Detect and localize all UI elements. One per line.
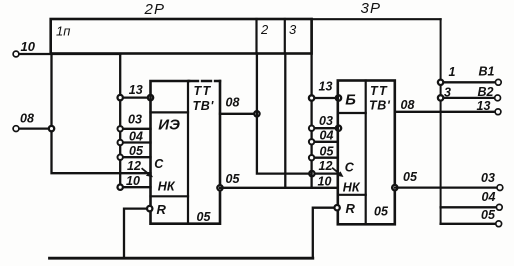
wire pin 05 of U2 xyxy=(312,157,338,159)
svg-text:08: 08 xyxy=(226,96,240,110)
svg-text:12: 12 xyxy=(319,159,333,173)
node pin 03 U2 box edge xyxy=(336,126,341,131)
svg-text:3: 3 xyxy=(289,22,297,37)
node pin 03 xyxy=(118,126,123,131)
wire right pin rail (box right edge extension) xyxy=(310,19,312,188)
terminal 05 xyxy=(496,221,502,227)
svg-text:03: 03 xyxy=(319,114,333,128)
wire pin 10 of U1 xyxy=(120,186,150,188)
svg-text:05: 05 xyxy=(197,210,212,224)
wire 08 output of U1 xyxy=(220,113,257,115)
node 05 output of U2 xyxy=(392,185,397,190)
svg-text:Б: Б xyxy=(345,92,356,109)
node pin 03 U2 rail xyxy=(309,126,314,131)
svg-text:04: 04 xyxy=(320,129,334,143)
terminal В1 xyxy=(495,79,501,85)
terminal 04 xyxy=(496,204,502,210)
svg-text:3Р: 3Р xyxy=(361,0,382,17)
node pin13 U2 box edge xyxy=(336,95,341,100)
wire 05 of U1 to pin 10 of U2 xyxy=(220,187,338,189)
svg-text:04: 04 xyxy=(129,129,143,143)
svg-text:13: 13 xyxy=(319,80,333,94)
wire left pin rail xyxy=(119,54,121,187)
node pin 04 U2 xyxy=(309,139,314,144)
wire R input of U1 xyxy=(124,209,150,259)
node R of U1 xyxy=(147,206,152,211)
node В2 junction xyxy=(438,95,443,100)
svg-text:2: 2 xyxy=(260,22,269,37)
node pin 04 xyxy=(118,140,123,145)
dynamic input arrow C of U2 xyxy=(333,168,340,174)
terminal 10 (input) xyxy=(13,51,19,57)
svg-text:03: 03 xyxy=(481,171,495,185)
counter U1 box outline xyxy=(151,81,221,224)
svg-text:ТВ': ТВ' xyxy=(193,99,215,113)
wire pin 04 of U2 xyxy=(312,141,338,143)
svg-text:НК: НК xyxy=(158,179,176,193)
svg-text:С: С xyxy=(345,160,355,174)
divider cell 3 xyxy=(284,19,286,54)
svg-text:12: 12 xyxy=(127,159,141,173)
counter U1 dashed top edge xyxy=(189,80,220,82)
U2 inner divider xyxy=(365,81,367,225)
svg-text:04: 04 xyxy=(482,190,496,204)
node pin 05 xyxy=(118,155,123,160)
svg-text:10: 10 xyxy=(21,39,36,54)
node pin 05 U2 xyxy=(309,155,314,160)
svg-text:10: 10 xyxy=(318,174,332,188)
svg-text:ТТ: ТТ xyxy=(370,84,388,98)
node pin13 U2 rail xyxy=(309,95,314,100)
wire to terminal 04 xyxy=(441,206,500,208)
svg-text:С: С xyxy=(154,157,164,171)
wire pin 13 of U1 xyxy=(120,96,150,98)
wire terminal 10 to pin rail xyxy=(20,53,121,55)
terminal В2 xyxy=(495,95,501,101)
wire left rail down from box 1п xyxy=(52,54,151,174)
svg-text:05: 05 xyxy=(129,144,144,158)
node pin13 rail xyxy=(118,95,123,100)
svg-text:2Р: 2Р xyxy=(144,1,166,18)
svg-text:08: 08 xyxy=(401,98,415,112)
U2 divider under Б cell xyxy=(338,112,366,114)
wire from cell 3 down to 05 net xyxy=(284,54,286,188)
wire R input of U2 xyxy=(313,208,337,259)
svg-text:13: 13 xyxy=(129,83,143,97)
dynamic input arrow C of U1 xyxy=(142,169,149,175)
counter U1 divider above R xyxy=(151,195,189,197)
wire to terminal 05 xyxy=(441,223,499,225)
wire vertical bus to output terminals xyxy=(440,19,442,224)
svg-text:13: 13 xyxy=(477,99,491,113)
svg-text:10: 10 xyxy=(126,174,140,188)
U2 divider above R xyxy=(338,194,366,196)
counter U1 inner divider xyxy=(187,81,189,224)
svg-text:05: 05 xyxy=(481,208,496,222)
wire pin 03 of U1 xyxy=(120,128,150,130)
wire pin 05 of U1 xyxy=(120,156,150,158)
node R of U2 xyxy=(334,205,339,210)
svg-text:ТВ': ТВ' xyxy=(369,99,391,113)
node C input junction on right rail xyxy=(309,171,314,176)
node 05 output of U1 xyxy=(217,185,222,190)
svg-text:03: 03 xyxy=(128,113,142,127)
wire pin 04 of U1 xyxy=(120,141,150,143)
register box 1п (top long box) xyxy=(51,19,312,54)
node 08 junction on left rail xyxy=(49,126,54,131)
wire 08 output of U2 to terminal 13 xyxy=(395,111,498,113)
flip-flop U2 box outline xyxy=(338,81,395,225)
wire from cell 2 down to C input of U2 xyxy=(257,54,338,174)
svg-text:1п: 1п xyxy=(56,23,70,38)
wire 05 output of U2 to terminal 03 xyxy=(395,186,500,188)
terminal 13 xyxy=(495,109,501,115)
svg-text:R: R xyxy=(346,201,356,216)
svg-text:05: 05 xyxy=(320,144,335,158)
svg-text:3: 3 xyxy=(444,86,451,100)
svg-text:В1: В1 xyxy=(479,65,495,79)
svg-text:05: 05 xyxy=(374,205,389,219)
svg-text:В2: В2 xyxy=(478,85,494,99)
wire bottom reset bus xyxy=(50,257,313,260)
divider cell 2 xyxy=(255,19,257,54)
svg-text:ТТ: ТТ xyxy=(194,84,212,98)
svg-text:НК: НК xyxy=(343,180,361,194)
svg-text:R: R xyxy=(157,202,167,217)
svg-text:08: 08 xyxy=(20,111,34,125)
terminal 03 xyxy=(497,185,503,191)
wire to terminal В2 xyxy=(441,97,498,99)
svg-text:05: 05 xyxy=(226,172,241,186)
svg-text:1: 1 xyxy=(449,65,456,79)
wire pin 13 of U2 xyxy=(312,97,338,99)
node pin 10 xyxy=(118,185,123,190)
wire to terminal В1 xyxy=(441,81,499,83)
wire terminal 08 to left rail xyxy=(20,127,52,129)
wire pin 03 of U2 xyxy=(312,127,338,129)
counter U1 divider under top cell xyxy=(151,111,189,113)
node 08/cell2 junction xyxy=(254,111,259,116)
wire net 3Р top run xyxy=(312,18,441,20)
node pin13 box edge xyxy=(148,95,153,100)
terminal 08 (input) xyxy=(13,126,19,132)
node В1 junction xyxy=(438,80,443,85)
svg-text:ИЭ: ИЭ xyxy=(158,116,180,133)
svg-text:05: 05 xyxy=(403,170,418,184)
